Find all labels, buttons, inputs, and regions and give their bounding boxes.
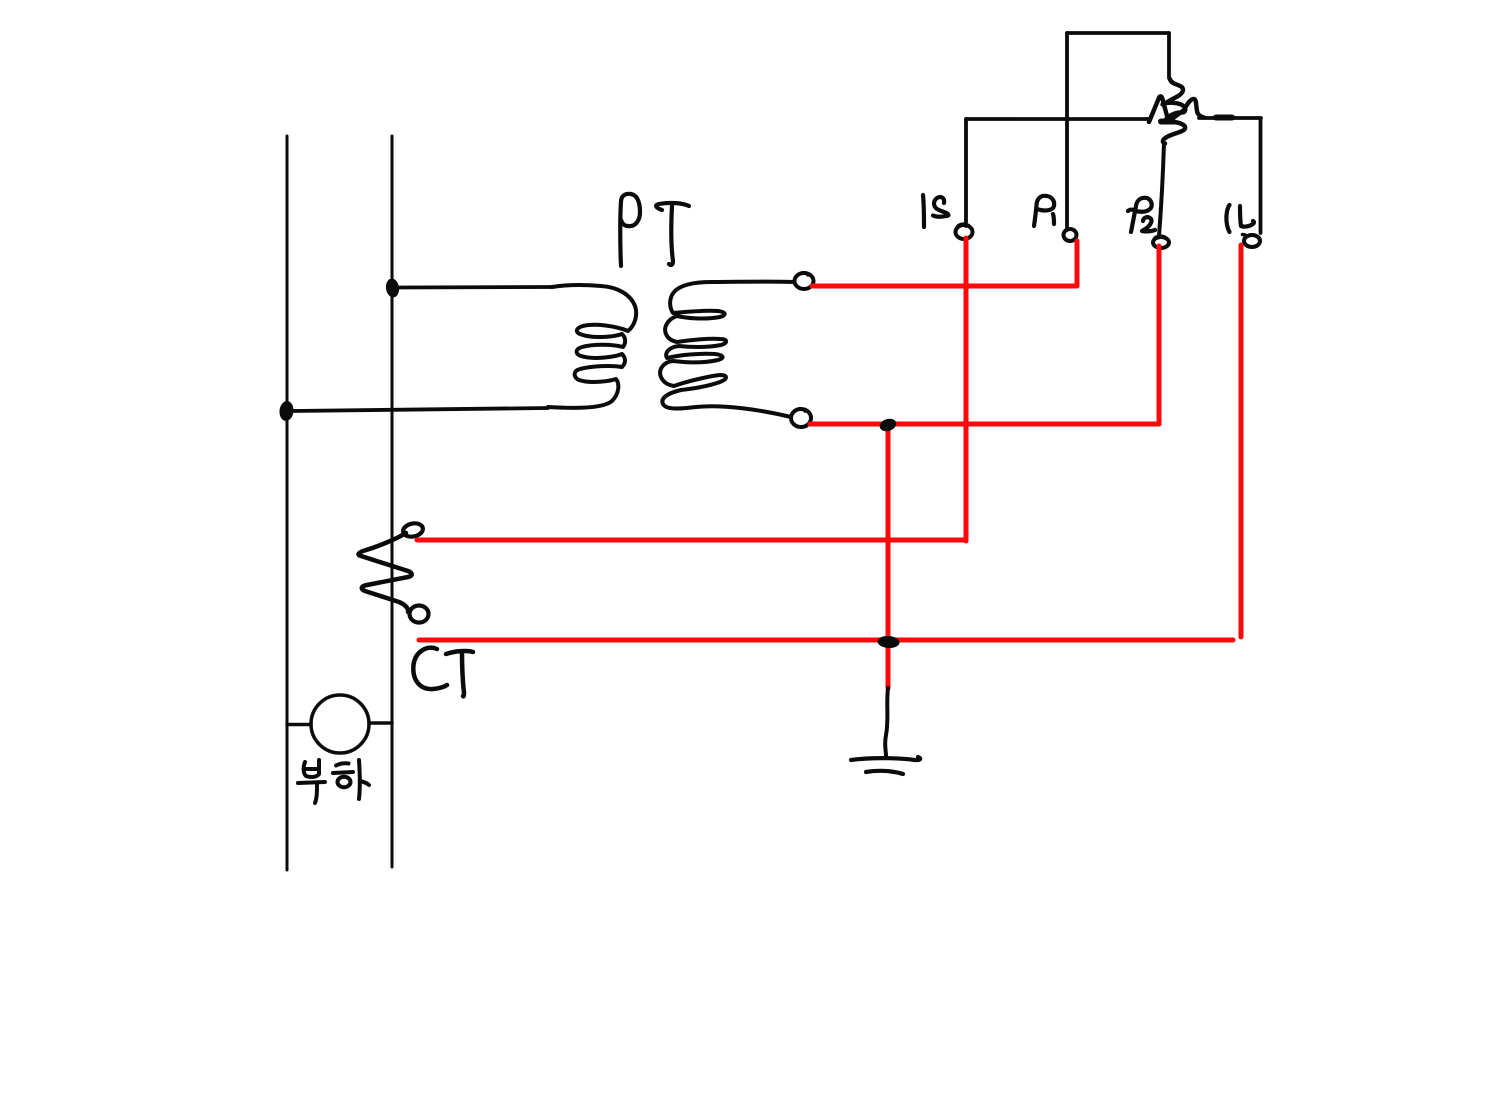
label PT [620, 194, 640, 266]
terminal circle PT secondary bottom [791, 409, 811, 427]
wire ground lead squiggle [885, 688, 888, 756]
wire horizontal resistor to 1L corner [1199, 116, 1261, 120]
node junction dot on left bus [278, 400, 294, 421]
wire left bus vertical [286, 136, 289, 870]
wire right bus vertical [391, 136, 394, 867]
wire red center vertical to ground [886, 424, 891, 688]
ground symbol [851, 757, 920, 760]
wire resistor bottom lead to P2 [1159, 143, 1164, 236]
terminal circle 1S [956, 225, 973, 239]
wire P1 vertical lead [1065, 33, 1069, 230]
meter load circle [311, 695, 369, 753]
terminal circle P2 [1153, 237, 1169, 248]
label P1 [1034, 196, 1054, 226]
label P2 [1128, 198, 1152, 232]
wire red P2 vertical [1157, 246, 1162, 424]
wire 1L vertical lead [1259, 119, 1263, 233]
node junction dot on right bus [385, 278, 401, 299]
wire resistor top lead [1167, 33, 1171, 78]
terminal circle P1 [1064, 229, 1077, 241]
wire red P1 vertical [1075, 241, 1080, 286]
label 1L [1226, 205, 1229, 232]
wire red CT bottom horizontal [419, 638, 1233, 643]
inductor PT primary winding [548, 285, 636, 408]
wire resistor overdraw on horizontal [1216, 115, 1232, 121]
wire horizontal 1S to resistor [966, 117, 1148, 121]
resistor R scribble [1149, 79, 1204, 144]
terminal circle PT secondary top [795, 273, 814, 289]
wire red CT top horizontal [417, 538, 966, 543]
terminal circle 1L [1244, 235, 1260, 247]
wire PT primary bottom lead [292, 408, 548, 411]
wire load left stub [287, 723, 311, 727]
inductor PT secondary winding [660, 282, 794, 417]
wire red P1 horizontal [812, 284, 1077, 289]
wire top rectangle horizontal [1067, 31, 1169, 35]
resistor CT zigzag on right bus [359, 533, 412, 612]
node junction dot red center top [878, 417, 898, 434]
terminal circle CT bottom [410, 606, 429, 623]
node junction dot red center bottom [877, 635, 900, 649]
label CT [413, 648, 447, 689]
wire PT primary top lead [399, 285, 552, 289]
terminal circle CT top [402, 522, 424, 539]
wire 1S vertical lead [964, 119, 968, 226]
label 1S [923, 195, 924, 227]
wire red 1S vertical [964, 238, 969, 541]
wire load right stub [369, 721, 392, 725]
label 부하 (load) [298, 760, 369, 803]
wire red 1L vertical [1239, 245, 1244, 637]
wire red P2 horizontal [810, 422, 1159, 427]
